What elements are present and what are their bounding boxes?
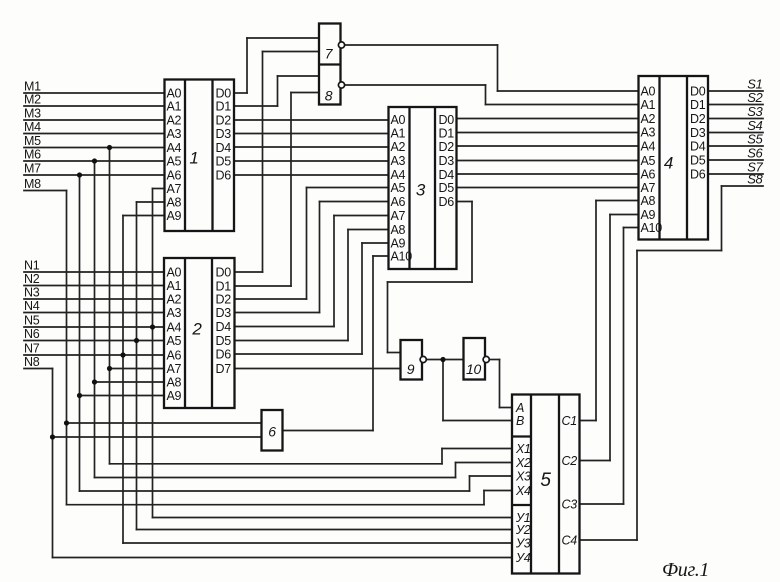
svg-text:M8: M8 <box>24 177 41 191</box>
svg-text:X1: X1 <box>515 442 531 456</box>
svg-text:N4: N4 <box>24 299 40 313</box>
svg-text:B: B <box>516 414 524 428</box>
svg-text:8: 8 <box>325 88 333 104</box>
svg-text:D3: D3 <box>216 127 232 141</box>
svg-text:3: 3 <box>416 181 426 200</box>
svg-text:A3: A3 <box>167 127 182 141</box>
svg-text:D2: D2 <box>216 292 232 306</box>
svg-text:D0: D0 <box>690 84 706 98</box>
svg-text:D1: D1 <box>439 126 455 140</box>
svg-text:A9: A9 <box>167 389 182 403</box>
svg-text:D5: D5 <box>690 153 706 167</box>
svg-text:A0: A0 <box>391 113 406 127</box>
svg-text:X4: X4 <box>515 484 531 498</box>
svg-text:D1: D1 <box>216 279 232 293</box>
svg-text:S5: S5 <box>747 132 763 147</box>
svg-text:S6: S6 <box>747 146 763 161</box>
svg-text:A2: A2 <box>391 140 406 154</box>
svg-text:D2: D2 <box>216 113 232 127</box>
svg-text:M7: M7 <box>24 162 41 176</box>
svg-text:1: 1 <box>189 149 198 168</box>
svg-text:У3: У3 <box>515 536 531 550</box>
svg-text:A5: A5 <box>167 334 182 348</box>
svg-text:A8: A8 <box>167 375 182 389</box>
svg-text:9: 9 <box>407 361 415 377</box>
svg-text:D4: D4 <box>690 139 706 153</box>
svg-text:M4: M4 <box>24 120 41 134</box>
svg-text:A5: A5 <box>641 154 656 168</box>
svg-text:A0: A0 <box>167 265 182 279</box>
svg-text:A3: A3 <box>641 125 656 139</box>
svg-text:A2: A2 <box>167 292 182 306</box>
svg-text:A3: A3 <box>167 306 182 320</box>
svg-text:2: 2 <box>191 320 202 339</box>
svg-text:A6: A6 <box>167 348 182 362</box>
svg-text:N1: N1 <box>24 259 40 273</box>
svg-text:A7: A7 <box>391 209 406 223</box>
svg-text:A9: A9 <box>641 208 656 222</box>
svg-text:N3: N3 <box>24 286 40 300</box>
svg-text:У2: У2 <box>515 523 531 537</box>
svg-text:D5: D5 <box>439 181 455 195</box>
svg-text:A10: A10 <box>641 221 663 235</box>
svg-text:N5: N5 <box>24 314 40 328</box>
svg-text:N6: N6 <box>24 327 40 341</box>
svg-text:D5: D5 <box>216 334 232 348</box>
svg-text:A: A <box>515 401 524 415</box>
svg-text:D3: D3 <box>690 126 706 140</box>
svg-text:A5: A5 <box>167 154 182 168</box>
svg-text:N2: N2 <box>24 272 40 286</box>
svg-text:D2: D2 <box>439 140 455 154</box>
svg-text:A0: A0 <box>167 86 182 100</box>
svg-text:D0: D0 <box>439 113 455 127</box>
svg-text:N7: N7 <box>24 342 40 356</box>
svg-text:A7: A7 <box>167 362 182 376</box>
svg-text:D7: D7 <box>216 362 232 376</box>
svg-text:A8: A8 <box>391 223 406 237</box>
svg-text:A4: A4 <box>641 139 656 153</box>
svg-text:C1: C1 <box>562 414 577 428</box>
svg-text:M3: M3 <box>24 107 41 121</box>
svg-text:A7: A7 <box>641 181 656 195</box>
svg-text:D0: D0 <box>216 86 232 100</box>
svg-text:У4: У4 <box>515 551 531 565</box>
svg-text:A1: A1 <box>167 99 182 113</box>
svg-text:S8: S8 <box>747 172 763 187</box>
svg-text:D6: D6 <box>216 347 232 361</box>
svg-text:A10: A10 <box>391 249 413 263</box>
svg-text:5: 5 <box>540 470 551 491</box>
svg-text:A3: A3 <box>391 154 406 168</box>
svg-text:X3: X3 <box>515 469 531 483</box>
svg-text:10: 10 <box>466 361 481 377</box>
svg-text:D5: D5 <box>216 154 232 168</box>
svg-text:6: 6 <box>268 424 276 440</box>
svg-text:A6: A6 <box>641 167 656 181</box>
svg-text:A5: A5 <box>391 181 406 195</box>
svg-text:A4: A4 <box>167 141 182 155</box>
svg-text:M5: M5 <box>24 134 41 148</box>
svg-text:M6: M6 <box>24 148 41 162</box>
svg-text:D3: D3 <box>216 306 232 320</box>
svg-text:Фиг.1: Фиг.1 <box>662 559 709 581</box>
svg-text:A4: A4 <box>391 168 406 182</box>
svg-text:D1: D1 <box>690 98 706 112</box>
svg-text:X2: X2 <box>515 456 531 470</box>
svg-text:D6: D6 <box>690 167 706 181</box>
svg-text:D3: D3 <box>439 154 455 168</box>
svg-text:S3: S3 <box>747 104 763 119</box>
svg-text:A9: A9 <box>167 209 182 223</box>
svg-text:M1: M1 <box>24 80 41 94</box>
svg-text:A0: A0 <box>641 84 656 98</box>
svg-text:A6: A6 <box>391 195 406 209</box>
svg-text:D4: D4 <box>439 168 455 182</box>
svg-text:D0: D0 <box>216 265 232 279</box>
svg-text:A4: A4 <box>167 320 182 334</box>
svg-text:A1: A1 <box>641 98 656 112</box>
svg-text:4: 4 <box>664 154 673 173</box>
svg-text:A9: A9 <box>391 236 406 250</box>
svg-text:C4: C4 <box>562 533 578 547</box>
svg-text:A7: A7 <box>167 182 182 196</box>
svg-text:D2: D2 <box>690 112 706 126</box>
svg-text:A2: A2 <box>641 112 656 126</box>
svg-text:D6: D6 <box>216 168 232 182</box>
svg-text:D4: D4 <box>216 141 232 155</box>
svg-text:A6: A6 <box>167 168 182 182</box>
svg-text:A2: A2 <box>167 113 182 127</box>
svg-text:D6: D6 <box>439 195 455 209</box>
svg-text:M2: M2 <box>24 93 41 107</box>
svg-text:D4: D4 <box>216 320 232 334</box>
svg-text:A1: A1 <box>167 279 182 293</box>
svg-text:C3: C3 <box>562 497 578 511</box>
svg-text:S2: S2 <box>747 90 763 105</box>
svg-text:N8: N8 <box>24 355 40 369</box>
svg-text:D1: D1 <box>216 99 232 113</box>
svg-text:A8: A8 <box>641 194 656 208</box>
svg-text:C2: C2 <box>562 454 578 468</box>
svg-text:A1: A1 <box>391 126 406 140</box>
svg-text:A8: A8 <box>167 195 182 209</box>
